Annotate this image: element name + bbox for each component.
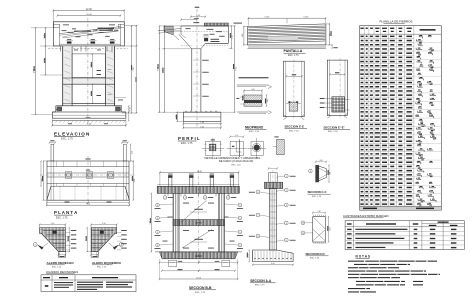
SECCION E-E drawing [284, 60, 305, 120]
svg-text:1.50: 1.50 [131, 151, 133, 154]
svg-text:ESC. 1:15: ESC. 1:15 [97, 266, 107, 268]
svg-text:2.50: 2.50 [51, 223, 55, 225]
svg-text:CANTIDADES ESTRIBO MARGEN: CANTIDADES ESTRIBO MARGEN [343, 214, 389, 218]
SECCION A-A drawing [248, 167, 296, 266]
svg-text:1.50: 1.50 [329, 228, 331, 231]
svg-text:SECCION D-D: SECCION D-D [306, 252, 325, 256]
SECCION B-B drawing [150, 170, 243, 280]
svg-text:P L A N T A: P L A N T A [54, 210, 78, 215]
ELEVACION drawing [31, 8, 138, 127]
svg-text:0.05: 0.05 [267, 99, 269, 102]
dim text smudges [34, 66, 35, 71]
svg-text:ALERO DERECHO: ALERO DERECHO [47, 261, 75, 265]
svg-text:1.80: 1.80 [200, 122, 204, 124]
svg-text:1.00: 1.00 [242, 34, 244, 37]
svg-text:ALERO IZQUIERDO: ALERO IZQUIERDO [92, 261, 121, 265]
PERFIL drawing [131, 7, 238, 129]
svg-text:ESC. 1:20: ESC. 1:20 [289, 130, 299, 132]
svg-text:3.00: 3.00 [134, 179, 136, 183]
svg-text:SECCION C-C: SECCION C-C [308, 190, 328, 194]
DETALLE DADO 2 [227, 135, 247, 157]
svg-text:ESC. 1:10: ESC. 1:10 [249, 131, 260, 133]
svg-text:11.60: 11.60 [86, 14, 92, 16]
svg-text:0.20: 0.20 [235, 135, 238, 137]
svg-text:ESC. 1:75: ESC. 1:75 [288, 55, 299, 57]
svg-text:0.80: 0.80 [317, 211, 320, 213]
svg-text:ESC. 1:20: ESC. 1:20 [328, 131, 338, 133]
CUADRO REVISIONES table [41, 270, 136, 292]
svg-text:ESC. 1:15: ESC. 1:15 [52, 266, 62, 268]
SECCION C-C drawing [309, 160, 332, 183]
svg-text:ESC. 1:75: ESC. 1:75 [56, 216, 68, 219]
svg-text:PANTALLA: PANTALLA [284, 49, 303, 53]
svg-text:SECCION E'-E': SECCION E'-E' [324, 126, 345, 130]
ALERO IZQUIERDO drawing [87, 223, 127, 257]
CANTIDADES ESTRIBO MARGEN table [343, 214, 464, 250]
svg-text:PLANILLA DE FIERROS: PLANILLA DE FIERROS [379, 19, 412, 23]
svg-text:ESC. 1:10: ESC. 1:10 [231, 164, 241, 166]
svg-text:N O T A S: N O T A S [356, 254, 370, 258]
svg-text:0.60: 0.60 [251, 89, 254, 91]
SECCION D-D drawing [301, 211, 331, 244]
PLANTA drawing [40, 140, 136, 206]
PANTALLA drawing [234, 16, 338, 49]
svg-text:1.00: 1.00 [330, 172, 332, 175]
svg-text:4.00: 4.00 [271, 263, 275, 265]
svg-text:4.00: 4.00 [200, 126, 204, 128]
svg-text:ESC. 1:75: ESC. 1:75 [61, 137, 73, 141]
svg-text:6.025: 6.025 [265, 16, 270, 18]
svg-text:1.20: 1.20 [196, 15, 200, 17]
svg-text:0.80: 0.80 [319, 160, 322, 162]
svg-text:1.70: 1.70 [232, 35, 234, 39]
svg-text:0.60: 0.60 [130, 107, 132, 110]
NOTAS text block [348, 254, 440, 292]
NEOPRENO detail [236, 77, 271, 114]
svg-text:ESC. 1:20: ESC. 1:20 [312, 196, 322, 198]
svg-text:SECCION A-A: SECCION A-A [250, 279, 272, 283]
svg-text:P E R F I L: P E R F I L [178, 136, 200, 141]
svg-text:ESC. 1:75: ESC. 1:75 [181, 142, 193, 145]
SECCION E'-E' drawing [320, 58, 350, 118]
DETALLE DADO 3 [248, 138, 267, 159]
svg-text:6.025: 6.025 [304, 16, 309, 18]
svg-text:2.50: 2.50 [102, 223, 106, 225]
svg-text:NEOPRENO: NEOPRENO [245, 125, 264, 129]
svg-text:12.00: 12.00 [196, 277, 201, 279]
svg-text:ELEVACION: ELEVACION [54, 131, 90, 136]
svg-text:DE DADO (0.20x0.20x0.20): DE DADO (0.20x0.20x0.20) [219, 159, 254, 163]
svg-text:ESC. 1:75: ESC. 1:75 [195, 292, 206, 294]
svg-text:ESC. 1:20: ESC. 1:20 [310, 257, 320, 259]
svg-text:12.40: 12.40 [197, 171, 203, 173]
DETALLE DADO 1 [202, 138, 224, 159]
ALERO DERECHO drawing [33, 223, 76, 257]
DETALLE anchor bar [273, 136, 284, 154]
PLANILLA DE FIERROS table [360, 19, 442, 210]
svg-text:12.40: 12.40 [86, 8, 93, 11]
svg-text:SECCION E-E: SECCION E-E [285, 125, 305, 129]
svg-text:SECCION B-B: SECCION B-B [189, 286, 212, 290]
svg-text:ESC. 1:75: ESC. 1:75 [255, 285, 265, 287]
svg-text:CUADRO REVISIONES: CUADRO REVISIONES [46, 270, 78, 274]
